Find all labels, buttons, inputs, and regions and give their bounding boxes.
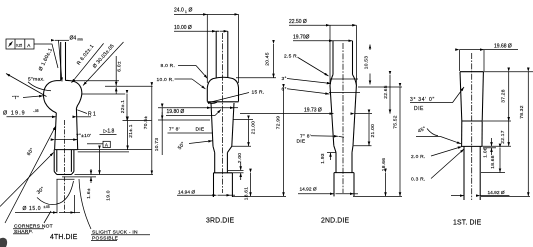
svg-text:18.68: 18.68 [490, 155, 496, 169]
svg-text:19.68 Ø: 19.68 Ø [494, 44, 512, 50]
svg-text:2.00: 2.00 [237, 153, 243, 164]
svg-text:10.00 Ø: 10.00 Ø [174, 25, 192, 31]
svg-text:3° 34' 0": 3° 34' 0" [410, 97, 435, 103]
svg-text:75.52: 75.52 [392, 115, 398, 129]
svg-text:3RD.DIE: 3RD.DIE [206, 218, 234, 225]
svg-text:-.05: -.05 [33, 109, 39, 113]
svg-text:5°max.: 5°max. [28, 76, 45, 82]
svg-text:14.94 Ø: 14.94 Ø [178, 189, 195, 195]
svg-text:15 R.: 15 R. [252, 90, 265, 96]
svg-text:20.45: 20.45 [265, 52, 271, 66]
svg-text:37.28: 37.28 [500, 89, 506, 103]
svg-text:24.0: 24.0 [174, 8, 184, 14]
svg-text:4TH.DIE: 4TH.DIE [50, 234, 78, 241]
svg-text:6°: 6° [282, 86, 287, 92]
svg-text:“T”: “T” [12, 95, 19, 101]
svg-text:10.0 R.: 10.0 R. [157, 77, 175, 83]
svg-text:▷1.8: ▷1.8 [104, 129, 115, 135]
svg-text:22±.1: 22±.1 [120, 100, 126, 113]
svg-text:22.17: 22.17 [500, 130, 506, 144]
svg-text:78.32: 78.32 [519, 105, 525, 119]
svg-text:70.5±: 70.5± [143, 116, 149, 130]
svg-text:Ø: Ø [189, 8, 193, 14]
svg-text:21.00: 21.00 [370, 124, 376, 138]
svg-text:Ø 19.9: Ø 19.9 [3, 110, 26, 116]
svg-text:7° 8': 7° 8' [300, 133, 311, 139]
svg-text:19.73 Ø: 19.73 Ø [304, 108, 322, 114]
svg-text:18.66: 18.66 [381, 158, 387, 172]
svg-text:DIE: DIE [196, 127, 205, 133]
svg-text:1.6±: 1.6± [86, 188, 92, 199]
svg-text:0.25: 0.25 [16, 43, 22, 47]
svg-text:8.0 R.: 8.0 R. [161, 63, 176, 69]
svg-text:7°±10': 7°±10' [76, 133, 91, 139]
svg-text:6.0±: 6.0± [117, 61, 123, 72]
svg-text:10.73: 10.73 [154, 138, 160, 152]
svg-text:10.53: 10.53 [364, 56, 370, 70]
svg-text:1ST. DIE: 1ST. DIE [453, 220, 482, 227]
svg-text:19.70Ø: 19.70Ø [293, 35, 310, 41]
svg-text:21±.1: 21±.1 [128, 124, 134, 137]
svg-text:0.3 R.: 0.3 R. [411, 177, 426, 183]
svg-text:1.93: 1.93 [320, 153, 326, 164]
svg-text:DIE: DIE [414, 106, 424, 112]
svg-text:1.06: 1.06 [482, 147, 488, 158]
svg-text:22.50 Ø: 22.50 Ø [289, 19, 307, 25]
svg-text:2ND.DIE: 2ND.DIE [321, 218, 349, 225]
svg-text:7° 8': 7° 8' [169, 127, 180, 133]
svg-text:18.61: 18.61 [243, 187, 249, 201]
svg-text:±.05: ±.05 [44, 205, 50, 209]
svg-text:21.00: 21.00 [251, 121, 257, 135]
svg-text:DIE: DIE [297, 139, 306, 145]
svg-text:1: 1 [185, 10, 187, 14]
svg-text:14.92 Ø: 14.92 Ø [300, 186, 317, 192]
svg-text:19.80 Ø: 19.80 Ø [167, 109, 185, 115]
svg-text:2.5 R.: 2.5 R. [284, 54, 299, 60]
svg-text:mm: mm [78, 38, 84, 42]
svg-text:3°: 3° [282, 76, 287, 82]
svg-text:Ø 15.0: Ø 15.0 [23, 206, 42, 212]
svg-text:72.99: 72.99 [275, 116, 281, 130]
svg-text:Ø4: Ø4 [70, 36, 77, 42]
svg-text:19.0: 19.0 [105, 190, 111, 201]
svg-text:2.0 R.: 2.0 R. [411, 154, 426, 160]
